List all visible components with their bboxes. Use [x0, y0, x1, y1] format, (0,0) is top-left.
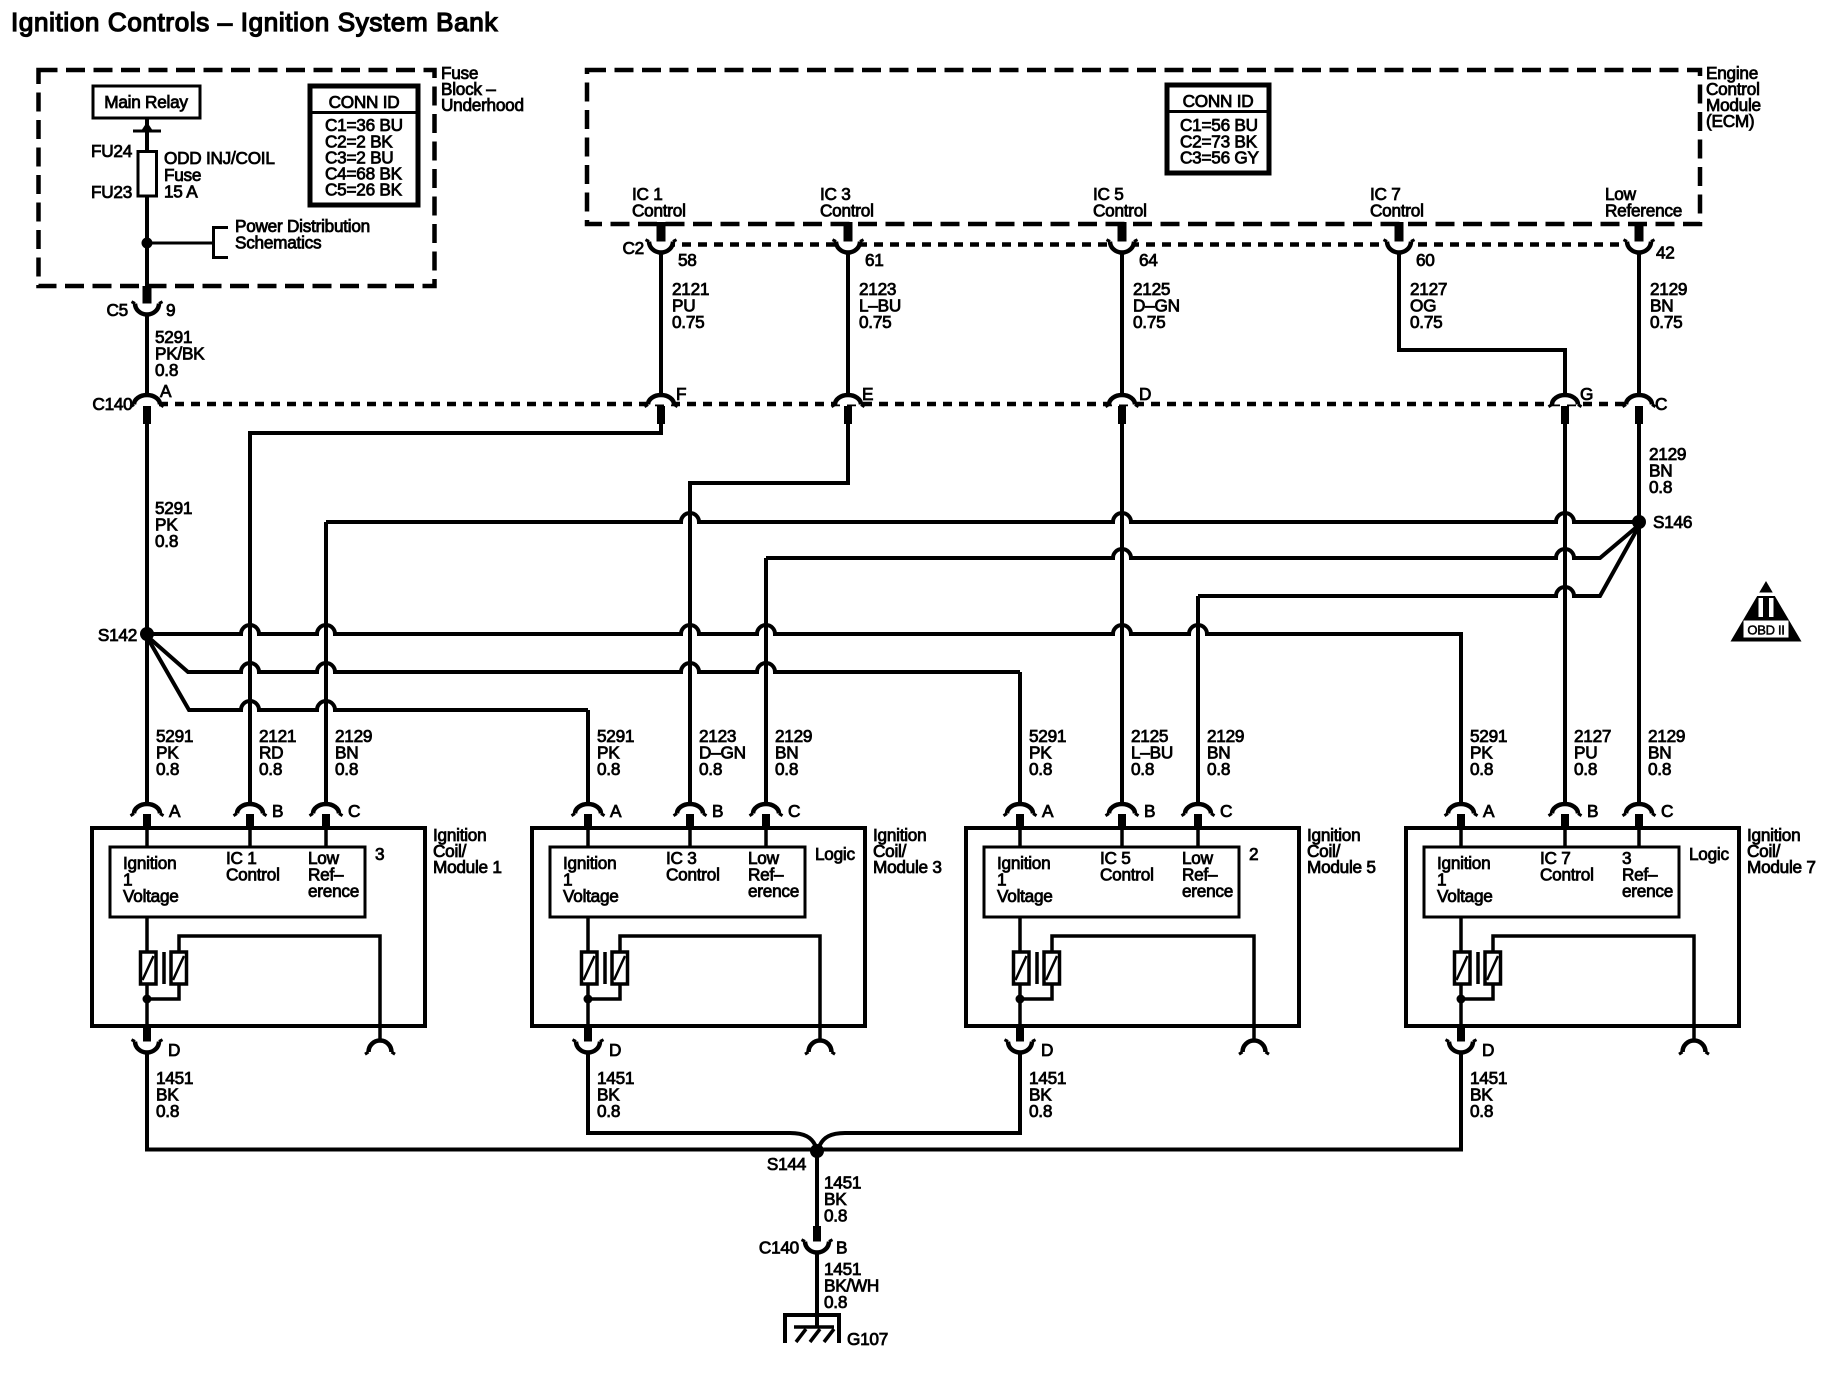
- wire 2121 PU 0.75: [661, 252, 709, 396]
- svg-text:3: 3: [375, 844, 384, 864]
- svg-text:D: D: [1041, 1040, 1053, 1060]
- svg-text:60: 60: [1416, 250, 1435, 270]
- svg-text:Voltage: Voltage: [563, 886, 619, 906]
- svg-text:Logic: Logic: [815, 844, 855, 864]
- svg-text:0.8: 0.8: [699, 759, 722, 779]
- wire 2129 BN 0.8 into module 1 pin C: [335, 726, 372, 779]
- svg-text:B: B: [272, 801, 283, 821]
- connector ignition coil/module 1 pin A: [131, 801, 182, 829]
- svg-text:Control: Control: [1100, 865, 1154, 885]
- connector ignition coil/module 3 pin C: [750, 801, 801, 829]
- svg-text:B: B: [836, 1238, 847, 1258]
- wire 2121 RD 0.8 into module 1 pin B: [259, 726, 296, 779]
- svg-text:C140: C140: [92, 394, 132, 414]
- svg-text:Module 1: Module 1: [433, 857, 502, 877]
- connector C2 dotted line: [623, 238, 1628, 258]
- OBD II symbol: [1731, 581, 1802, 642]
- wire 2129 BN 0.8 into module 3 pin C: [775, 726, 812, 779]
- wire from main relay to fuse: [133, 118, 161, 286]
- svg-text:G: G: [1580, 384, 1593, 404]
- svg-text:0.8: 0.8: [1029, 1101, 1052, 1121]
- connector ignition coil/module 1 pin B: [234, 801, 284, 829]
- svg-text:F: F: [676, 384, 686, 404]
- module 3 ignition coil windings: [582, 952, 628, 984]
- svg-text:15 A: 15 A: [164, 182, 198, 202]
- svg-text:0.8: 0.8: [156, 1101, 179, 1121]
- connector module 7 pin D: [1446, 1026, 1495, 1060]
- module 1 secondary output connector: [365, 1026, 395, 1054]
- svg-text:C140: C140: [759, 1238, 799, 1258]
- svg-text:0.8: 0.8: [1207, 759, 1230, 779]
- connector module 5 pin D: [1005, 1026, 1054, 1060]
- module 7 internal primary wire: [1461, 829, 1639, 952]
- connector C2 terminal 58: [646, 240, 697, 270]
- connector module 1 pin D: [132, 1026, 181, 1060]
- svg-text:Module 3: Module 3: [873, 857, 942, 877]
- ECM pin Low Reference: [1605, 184, 1682, 242]
- module 5 internal primary wire: [1020, 829, 1198, 952]
- svg-text:0.8: 0.8: [155, 360, 178, 380]
- svg-text:0.8: 0.8: [1574, 759, 1597, 779]
- wire 1451 BK 0.8 from module 7 pin D: [1470, 1068, 1507, 1121]
- ignition coil/module 3 box: [532, 825, 942, 1026]
- module 7 primary ground junction: [1457, 984, 1466, 1026]
- wire 2123 D–GN 0.8 into module 3 pin B: [699, 726, 746, 779]
- fuse block CONN ID table: [310, 86, 418, 205]
- svg-text:0.75: 0.75: [859, 312, 891, 332]
- fuse block underhood (dashed box): [39, 63, 524, 286]
- connector C140 terminal D: [1106, 384, 1152, 424]
- connector C2 terminal 60: [1384, 240, 1435, 270]
- svg-text:(ECM): (ECM): [1706, 111, 1754, 131]
- svg-text:0.75: 0.75: [1650, 312, 1682, 332]
- wire 1451 BK/WH 0.8 to ground: [817, 1252, 879, 1328]
- svg-text:C: C: [1655, 394, 1667, 414]
- svg-text:Voltage: Voltage: [1437, 886, 1493, 906]
- low reference bus from module 3 pin C to S146: [766, 525, 1639, 805]
- engine control module (dashed box): [587, 63, 1761, 224]
- svg-text:B: B: [712, 801, 723, 821]
- svg-text:Control: Control: [1540, 865, 1594, 885]
- ECM CONN ID table: [1167, 85, 1269, 173]
- svg-text:0.8: 0.8: [259, 759, 282, 779]
- connector C2 terminal 64: [1107, 240, 1159, 270]
- svg-text:A: A: [610, 801, 622, 821]
- module 1 primary ground junction: [143, 984, 152, 1026]
- connector C140 terminal E: [832, 384, 874, 424]
- wire 5291 PK 0.8 into module 1 pin A: [156, 726, 193, 779]
- wire 1451 BK 0.8 from module 1 pin D: [156, 1068, 193, 1121]
- main relay box: [93, 86, 200, 118]
- connector C5 pin 9: [107, 286, 176, 320]
- ignition feed bus S142 to module 7 pin A: [147, 625, 1461, 805]
- svg-text:B: B: [1587, 801, 1598, 821]
- svg-text:C5: C5: [107, 300, 128, 320]
- module 7 secondary output connector: [1679, 1026, 1709, 1054]
- svg-text:Voltage: Voltage: [123, 886, 179, 906]
- svg-text:Logic: Logic: [1689, 844, 1729, 864]
- svg-text:0.75: 0.75: [672, 312, 704, 332]
- connector ignition coil/module 7 pin A: [1445, 801, 1496, 829]
- wire 2125 D-GN 0.75: [1122, 252, 1180, 396]
- connector ignition coil/module 7 pin B: [1549, 801, 1599, 829]
- connector C140 terminal C: [1623, 394, 1668, 424]
- module 5 ignition coil windings: [1014, 952, 1060, 984]
- wire G to module 7 pin B: [1563, 424, 1567, 805]
- module 1 internal primary wire: [147, 829, 326, 952]
- connector C140 terminal F: [645, 384, 687, 424]
- module 3 coil secondary wire to output: [588, 936, 820, 1026]
- connector ignition coil/module 5 pin B: [1106, 801, 1156, 829]
- ignition coil/module 1 box: [92, 825, 502, 1026]
- module 7 coil secondary wire to output: [1461, 936, 1694, 1026]
- connector module 3 pin D: [573, 1026, 622, 1060]
- svg-text:0.8: 0.8: [155, 531, 178, 551]
- splice S142: [98, 625, 154, 645]
- module 3 internal primary wire: [588, 829, 766, 952]
- svg-text:D: D: [609, 1040, 621, 1060]
- svg-text:FU23: FU23: [91, 182, 132, 202]
- connector C2 terminal 42: [1624, 240, 1675, 263]
- svg-text:Module 5: Module 5: [1307, 857, 1376, 877]
- ECM pin IC 1: [632, 184, 686, 242]
- svg-text:61: 61: [865, 250, 884, 270]
- title: Ignition Controls - Ignition System Bank: [11, 7, 498, 37]
- svg-text:Voltage: Voltage: [997, 886, 1053, 906]
- svg-text:Control: Control: [1093, 201, 1147, 221]
- svg-text:0.8: 0.8: [775, 759, 798, 779]
- wire 1451 BK 0.8 from module 3 pin D: [597, 1068, 634, 1121]
- connector ignition coil/module 3 pin B: [674, 801, 724, 829]
- module 5 primary ground junction: [1016, 984, 1025, 1026]
- module 1 coil secondary wire to output: [147, 936, 380, 1026]
- svg-text:Reference: Reference: [1605, 201, 1682, 221]
- svg-text:OBD II: OBD II: [1747, 623, 1784, 638]
- svg-text:9: 9: [166, 300, 175, 320]
- wire 1451 BK 0.8 from S144: [817, 1151, 861, 1226]
- svg-text:C2: C2: [623, 238, 644, 258]
- ignition feed bus S142 to module 3 pin A: [147, 637, 588, 805]
- ignition feed bus S142 to module 5 pin A: [147, 636, 1020, 805]
- module 1 ignition coil windings: [141, 952, 187, 984]
- svg-text:0.8: 0.8: [1648, 759, 1671, 779]
- svg-text:CONN ID: CONN ID: [1183, 91, 1254, 111]
- module 7 ignition coil windings: [1455, 952, 1501, 984]
- svg-text:erence: erence: [308, 881, 359, 901]
- svg-text:E: E: [862, 384, 873, 404]
- svg-text:Module 7: Module 7: [1747, 857, 1816, 877]
- svg-text:G107: G107: [847, 1329, 888, 1349]
- connector C140 terminal B: [759, 1226, 847, 1258]
- wire F jog to module 1 pin B: [250, 424, 661, 805]
- svg-text:0.75: 0.75: [1133, 312, 1165, 332]
- splice S144: [767, 1144, 824, 1174]
- svg-text:0.8: 0.8: [1649, 477, 1672, 497]
- ignition coil/module 7 box: [1406, 825, 1816, 1026]
- low reference bus from module 5 pin C to S146: [1198, 526, 1639, 805]
- svg-text:0.8: 0.8: [335, 759, 358, 779]
- connector C140 dotted line: [92, 394, 1628, 414]
- wire 2129 BN 0.8 into module 5 pin C: [1207, 726, 1244, 779]
- wire 5291 PK 0.8 into module 7 pin A: [1470, 726, 1507, 779]
- svg-text:FU24: FU24: [91, 141, 133, 161]
- svg-text:0.8: 0.8: [824, 1206, 847, 1226]
- svg-text:C: C: [788, 801, 800, 821]
- wire 2129 BN 0.8 into module 7 pin C: [1648, 726, 1685, 779]
- module 3 secondary output connector: [805, 1026, 835, 1054]
- ECM pin IC 5: [1093, 184, 1147, 242]
- connector C2 terminal 61: [833, 240, 884, 270]
- ECM pin IC 7: [1370, 184, 1424, 242]
- svg-text:Control: Control: [1370, 201, 1424, 221]
- wire 2127 PU 0.8 into module 7 pin B: [1574, 726, 1611, 779]
- svg-text:A: A: [1042, 801, 1054, 821]
- svg-text:S142: S142: [98, 625, 137, 645]
- svg-text:A: A: [1483, 801, 1495, 821]
- connector ignition coil/module 5 pin A: [1004, 801, 1055, 829]
- svg-text:Control: Control: [632, 201, 686, 221]
- wire E jog to module 3 pin B: [690, 424, 848, 805]
- wire 5291 PK/BK 0.8: [147, 314, 205, 394]
- svg-text:0.8: 0.8: [1470, 1101, 1493, 1121]
- svg-text:0.8: 0.8: [597, 1101, 620, 1121]
- svg-text:0.8: 0.8: [1029, 759, 1052, 779]
- wire D to module 5 pin B: [1120, 424, 1124, 805]
- wire 2123 L-BU 0.75: [848, 252, 901, 396]
- svg-text:erence: erence: [1622, 881, 1673, 901]
- wire 5291 PK 0.8 (A to S142): [147, 424, 192, 805]
- fuse FU24/FU23 ODD INJ/COIL 15 A: [91, 141, 275, 202]
- svg-text:58: 58: [678, 250, 697, 270]
- svg-text:C3=56 GY: C3=56 GY: [1180, 148, 1260, 168]
- svg-text:B: B: [1144, 801, 1155, 821]
- svg-text:C: C: [348, 801, 360, 821]
- svg-text:Underhood: Underhood: [441, 95, 524, 115]
- svg-text:A: A: [160, 381, 172, 401]
- module 5 secondary output connector: [1239, 1026, 1269, 1054]
- svg-text:Ignition Controls – Ignition S: Ignition Controls – Ignition System Bank: [11, 7, 498, 37]
- ignition coil/module 5 box: [966, 825, 1376, 1026]
- svg-text:C: C: [1661, 801, 1673, 821]
- connector ignition coil/module 5 pin C: [1182, 801, 1233, 829]
- wire 5291 PK 0.8 into module 5 pin A: [1029, 726, 1066, 779]
- svg-text:Main Relay: Main Relay: [104, 92, 188, 112]
- svg-text:Schematics: Schematics: [235, 233, 321, 253]
- ECM pin IC 3: [820, 184, 874, 242]
- svg-text:2: 2: [1249, 844, 1258, 864]
- connector ignition coil/module 7 pin C: [1623, 801, 1674, 829]
- wire 5291 PK 0.8 into module 3 pin A: [597, 726, 634, 779]
- wire 2129 BN 0.75: [1639, 252, 1687, 396]
- ground bus from module 1 D to module 7 D through S144: [147, 1052, 1461, 1150]
- svg-text:Control: Control: [226, 865, 280, 885]
- svg-text:64: 64: [1139, 250, 1158, 270]
- svg-text:S144: S144: [767, 1154, 807, 1174]
- connector ignition coil/module 3 pin A: [572, 801, 623, 829]
- svg-text:0.75: 0.75: [1410, 312, 1442, 332]
- svg-text:D: D: [1482, 1040, 1494, 1060]
- svg-text:42: 42: [1656, 243, 1675, 263]
- svg-text:0.8: 0.8: [156, 759, 179, 779]
- svg-text:0.8: 0.8: [1131, 759, 1154, 779]
- wire 2125 L–BU 0.8 into module 5 pin B: [1131, 726, 1173, 779]
- wire C to S146 and module 7 pin C: [1639, 424, 1686, 805]
- junction + power distribution schematics reference: [142, 216, 370, 258]
- low reference bus from module 1 pin C to S146: [326, 513, 1639, 805]
- svg-text:S146: S146: [1653, 512, 1692, 532]
- svg-text:0.8: 0.8: [597, 759, 620, 779]
- ground G107: [785, 1315, 888, 1349]
- wire 2127 OG 0.75 (jog to G): [1399, 252, 1565, 395]
- wire 1451 BK 0.8 from module 5 pin D: [1029, 1068, 1066, 1121]
- svg-text:D: D: [1139, 384, 1151, 404]
- svg-text:Control: Control: [666, 865, 720, 885]
- svg-text:erence: erence: [748, 881, 799, 901]
- module 5 coil secondary wire to output: [1020, 936, 1254, 1026]
- svg-text:Control: Control: [820, 201, 874, 221]
- svg-text:0.8: 0.8: [824, 1292, 847, 1312]
- svg-text:0.8: 0.8: [1470, 759, 1493, 779]
- connector C140 terminal G: [1549, 384, 1594, 424]
- ground bus from module 3 D and module 5 D into S144: [588, 1052, 1020, 1147]
- svg-text:C: C: [1220, 801, 1232, 821]
- module 3 primary ground junction: [584, 984, 593, 1026]
- splice S146: [1632, 512, 1692, 532]
- svg-text:C5=26 BK: C5=26 BK: [325, 180, 403, 200]
- svg-text:A: A: [169, 801, 181, 821]
- connector C140 terminal A: [131, 381, 173, 424]
- connector ignition coil/module 1 pin C: [310, 801, 361, 829]
- svg-text:CONN ID: CONN ID: [329, 92, 400, 112]
- svg-text:D: D: [168, 1040, 180, 1060]
- svg-text:erence: erence: [1182, 881, 1233, 901]
